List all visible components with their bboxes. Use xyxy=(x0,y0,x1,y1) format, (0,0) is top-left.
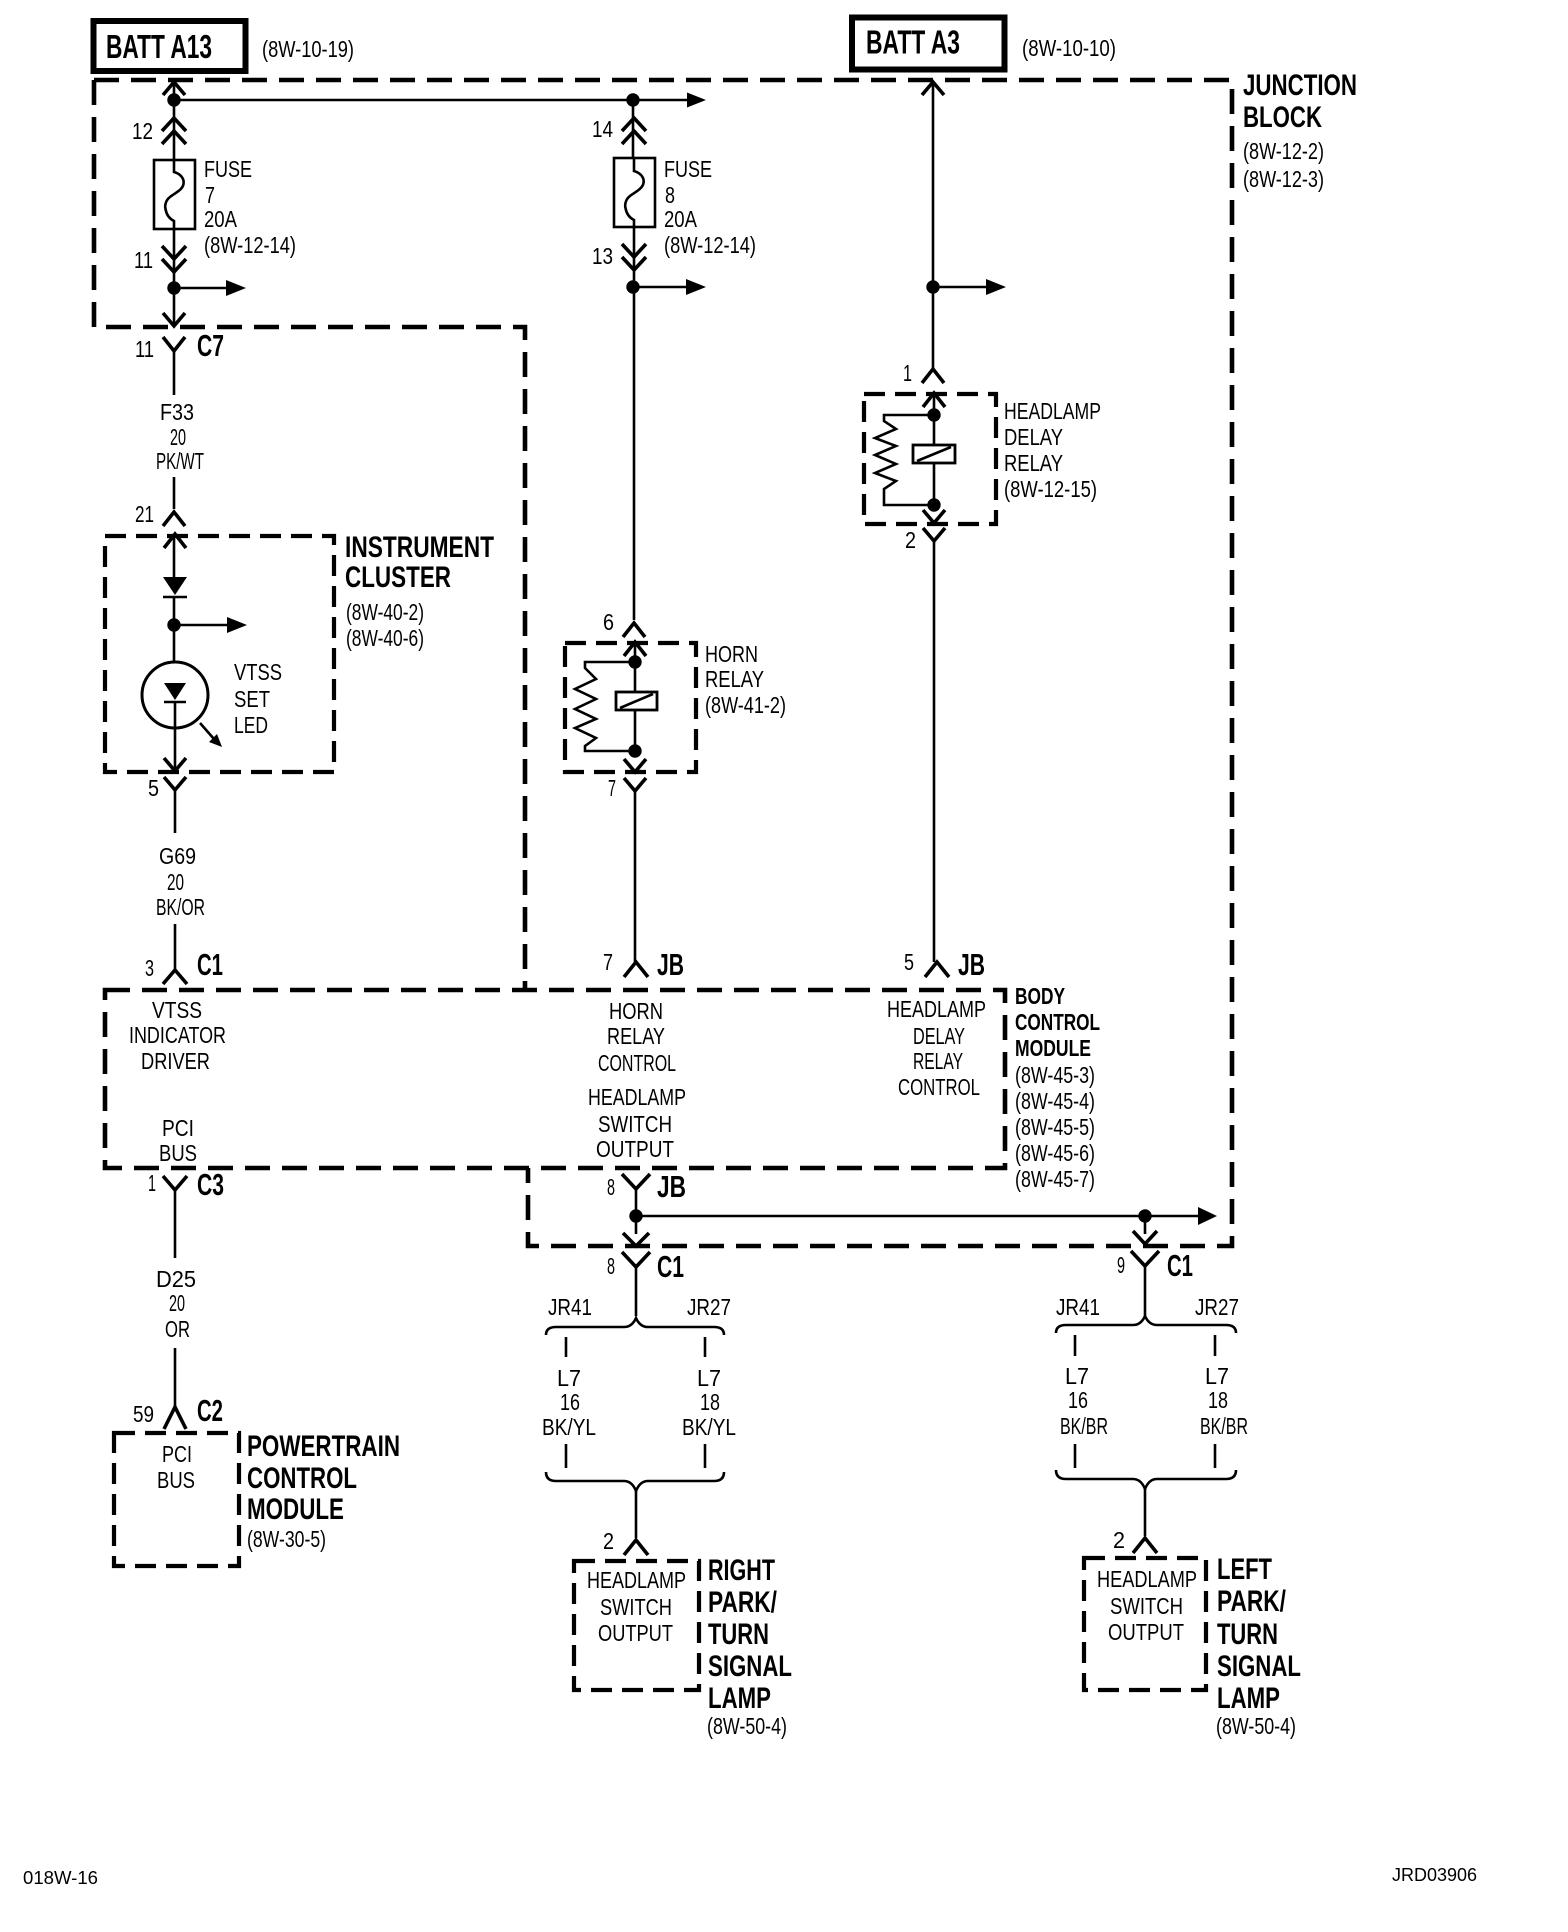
svg-text:HORN: HORN xyxy=(705,641,758,667)
svg-text:RELAY: RELAY xyxy=(913,1048,963,1074)
svg-text:16: 16 xyxy=(1068,1387,1088,1413)
svg-text:LAMP: LAMP xyxy=(1217,1682,1280,1715)
wire LED to pin 5 xyxy=(174,728,177,770)
svg-text:C3: C3 xyxy=(197,1167,224,1202)
delay relay coil element K2 xyxy=(913,445,955,463)
node delay relay bottom xyxy=(927,498,940,511)
svg-text:C1: C1 xyxy=(657,1249,684,1284)
svg-text:8: 8 xyxy=(607,1174,615,1200)
wire stub JR27 lower xyxy=(704,1444,707,1468)
svg-text:BODY: BODY xyxy=(1015,983,1065,1009)
wire diode to LED xyxy=(173,597,176,663)
svg-text:RELAY: RELAY xyxy=(705,666,764,692)
horn relay coil element K1 xyxy=(616,692,657,710)
wire F33 label xyxy=(156,399,204,474)
svg-text:VTSS: VTSS xyxy=(234,659,282,685)
splice brace split (right lamp) xyxy=(546,1318,724,1335)
diode D1 in cluster xyxy=(163,577,187,597)
svg-text:JR27: JR27 xyxy=(1195,1294,1239,1320)
svg-text:12: 12 xyxy=(132,118,153,144)
svg-text:BK/YL: BK/YL xyxy=(682,1414,736,1440)
wire horn relay internal vertical xyxy=(634,644,637,751)
svg-text:BUS: BUS xyxy=(159,1140,197,1166)
splice brace merge (left lamp) xyxy=(1056,1470,1236,1489)
connector half-arrow into junction block top (right) xyxy=(922,82,944,95)
connector 9 C1 xyxy=(1131,1248,1193,1316)
PCI BUS label in PCM xyxy=(157,1441,195,1493)
wire G69 to C1 xyxy=(174,924,177,970)
horn relay name label xyxy=(705,641,786,718)
svg-text:JUNCTION: JUNCTION xyxy=(1243,69,1357,102)
wire BATT A3 feed vertical xyxy=(932,84,935,370)
wire stub left JR41 upper xyxy=(1074,1335,1077,1356)
svg-text:(8W-30-5): (8W-30-5) xyxy=(247,1526,326,1552)
svg-text:OUTPUT: OUTPUT xyxy=(1108,1619,1184,1645)
svg-text:8: 8 xyxy=(607,1253,615,1279)
svg-text:G69: G69 xyxy=(159,843,196,869)
junction block inner step boundary xyxy=(94,80,525,988)
wire delay relay internal vertical xyxy=(933,395,936,505)
svg-text:CONTROL: CONTROL xyxy=(1015,1009,1100,1035)
node horn relay top xyxy=(628,655,641,668)
svg-text:OUTPUT: OUTPUT xyxy=(596,1136,674,1162)
connector half at cluster box edge xyxy=(164,534,186,548)
svg-text:BATT A13: BATT A13 xyxy=(106,28,212,65)
connector 7 JB at BCM top xyxy=(624,947,684,982)
svg-text:018W-16: 018W-16 xyxy=(23,1868,98,1888)
wire stub left JR27 lower xyxy=(1214,1444,1217,1468)
svg-text:9: 9 xyxy=(1117,1252,1125,1278)
body control module dashed box U-BCM xyxy=(105,990,1005,1168)
svg-text:7: 7 xyxy=(205,182,215,208)
svg-text:CONTROL: CONTROL xyxy=(598,1050,676,1076)
svg-text:PARK/: PARK/ xyxy=(708,1586,777,1619)
svg-text:3: 3 xyxy=(145,955,154,981)
svg-text:PK/WT: PK/WT xyxy=(156,448,204,474)
VTSS indicator driver label xyxy=(129,997,226,1074)
headlamp delay relay name label xyxy=(1004,398,1101,502)
VTSS SET LED lamp circle xyxy=(142,662,208,728)
horn relay dashed box K1 xyxy=(565,643,696,772)
svg-text:(8W-40-2): (8W-40-2) xyxy=(346,599,424,625)
horn relay coil resistor branch xyxy=(575,662,635,751)
svg-text:SET: SET xyxy=(234,686,270,712)
arrowhead top bus xyxy=(687,93,706,108)
svg-text:BK/BR: BK/BR xyxy=(1200,1413,1248,1439)
PCI BUS label in BCM xyxy=(159,1115,197,1166)
node at fuse7 top xyxy=(167,93,180,106)
svg-text:LAMP: LAMP xyxy=(708,1682,771,1715)
connector half pin 2 xyxy=(923,528,945,962)
svg-text:(8W-10-10): (8W-10-10) xyxy=(1022,35,1116,61)
horn relay control label in BCM xyxy=(598,998,676,1076)
wire stub JR41 lower xyxy=(565,1444,568,1468)
connector double chevron pin 13 xyxy=(622,244,646,270)
wire fuse8 feed xyxy=(632,100,635,160)
svg-text:SWITCH: SWITCH xyxy=(600,1594,672,1620)
svg-text:(8W-12-2): (8W-12-2) xyxy=(1243,138,1324,164)
wire fuse7 to C7 xyxy=(173,229,176,326)
svg-text:SIGNAL: SIGNAL xyxy=(708,1650,792,1683)
connector 8 C1 xyxy=(622,1249,684,1316)
connector half-arrow through junction block bottom (left lamp) xyxy=(1133,1231,1157,1244)
svg-text:L7: L7 xyxy=(1205,1363,1229,1389)
svg-text:JRD03906: JRD03906 xyxy=(1392,1865,1477,1885)
svg-text:MODULE: MODULE xyxy=(1015,1035,1091,1061)
arrowhead fuse8 branch xyxy=(686,279,706,295)
svg-text:DRIVER: DRIVER xyxy=(141,1048,210,1074)
connector half pin 2 right lamp xyxy=(624,1540,648,1555)
svg-text:(8W-12-14): (8W-12-14) xyxy=(664,232,756,258)
svg-text:20A: 20A xyxy=(204,206,238,232)
svg-text:SWITCH: SWITCH xyxy=(598,1111,672,1137)
svg-text:BATT A3: BATT A3 xyxy=(866,24,960,61)
wire merge to left lamp pin 2 xyxy=(1144,1489,1147,1536)
wire into cluster xyxy=(173,536,176,580)
connector half-arrow into junction block top (left) xyxy=(163,82,185,95)
wire fuse8 branch arrow stub xyxy=(633,286,688,289)
node cluster branch xyxy=(167,618,180,631)
svg-text:CONTROL: CONTROL xyxy=(898,1074,980,1100)
connector half at delay relay box top xyxy=(923,393,945,407)
svg-text:HEADLAMP: HEADLAMP xyxy=(587,1567,686,1593)
connector half pin 1 xyxy=(922,369,944,383)
LED diode triangle xyxy=(164,683,186,728)
wire L7 16 BK/BR label xyxy=(1060,1363,1108,1439)
headlamp switch output label in BCM xyxy=(588,1084,686,1162)
svg-text:JR27: JR27 xyxy=(687,1294,731,1320)
node fused B+ branch xyxy=(167,281,180,294)
svg-text:13: 13 xyxy=(592,243,613,269)
svg-text:CLUSTER: CLUSTER xyxy=(345,561,451,594)
connector 8 JB below BCM xyxy=(622,1169,686,1234)
junction block name label xyxy=(1243,69,1357,192)
headlamp delay relay dashed box K2 xyxy=(864,394,996,524)
battery feed box BATT A3 xyxy=(852,18,1005,70)
svg-text:(8W-45-6): (8W-45-6) xyxy=(1015,1140,1095,1166)
wire headlamp switch output bus horizontal xyxy=(636,1215,1199,1218)
wire F33 to instrument cluster xyxy=(173,477,176,509)
svg-text:(8W-45-4): (8W-45-4) xyxy=(1015,1088,1095,1114)
wire stub JR27 upper xyxy=(704,1337,707,1357)
svg-text:L7: L7 xyxy=(557,1365,581,1391)
svg-text:SIGNAL: SIGNAL xyxy=(1217,1650,1301,1683)
svg-text:8: 8 xyxy=(665,182,675,208)
svg-text:PCI: PCI xyxy=(162,1115,194,1141)
connector double chevron pin 14 xyxy=(622,118,646,144)
node headlamp switch output bus xyxy=(629,1209,642,1222)
svg-text:JB: JB xyxy=(657,1169,686,1204)
wire L7 16 BK/YL label xyxy=(542,1365,596,1440)
connector half-arrow through junction block bottom (mid) xyxy=(623,1233,649,1246)
fuse F8 body xyxy=(614,158,655,227)
svg-text:TURN: TURN xyxy=(1217,1618,1278,1651)
svg-text:PCI: PCI xyxy=(162,1441,192,1467)
svg-text:20: 20 xyxy=(167,869,184,895)
fuse F7 value label xyxy=(204,156,296,258)
svg-text:SWITCH: SWITCH xyxy=(1110,1593,1183,1619)
instrument cluster dashed box xyxy=(105,536,334,772)
wire BATT A3 branch arrow stub xyxy=(933,286,988,289)
svg-text:C7: C7 xyxy=(197,328,224,363)
svg-text:INSTRUMENT: INSTRUMENT xyxy=(345,531,494,564)
arrowhead cluster branch xyxy=(227,617,247,633)
svg-text:OUTPUT: OUTPUT xyxy=(598,1620,673,1646)
svg-text:5: 5 xyxy=(904,949,914,975)
svg-text:RELAY: RELAY xyxy=(607,1023,665,1049)
svg-text:POWERTRAIN: POWERTRAIN xyxy=(247,1430,400,1463)
right park/turn signal lamp name label xyxy=(707,1554,792,1739)
headlamp delay relay control label in BCM xyxy=(887,996,986,1100)
svg-text:RIGHT: RIGHT xyxy=(708,1554,775,1587)
VTSS SET LED label xyxy=(234,659,282,738)
svg-text:16: 16 xyxy=(560,1389,580,1415)
battery feed box BATT A13 xyxy=(94,21,246,71)
connector half-arrow out of junction block (C7 above) xyxy=(163,313,185,326)
right lamp headlamp switch output dashed box xyxy=(574,1561,699,1690)
svg-text:BK/YL: BK/YL xyxy=(542,1414,596,1440)
svg-text:(8W-40-6): (8W-40-6) xyxy=(346,625,424,651)
connector half pin 7 xyxy=(624,778,646,962)
connector 5 JB at BCM top xyxy=(925,947,985,982)
body control module name label xyxy=(1015,983,1100,1192)
svg-text:(8W-12-14): (8W-12-14) xyxy=(204,232,296,258)
arrowhead bus right xyxy=(1198,1207,1217,1225)
svg-text:JR41: JR41 xyxy=(548,1294,592,1320)
fuse F8 value label xyxy=(664,156,756,258)
node left lamp drop on bus xyxy=(1138,1209,1151,1222)
svg-text:(8W-50-4): (8W-50-4) xyxy=(707,1713,787,1739)
connector C3 xyxy=(163,1167,224,1258)
svg-text:(8W-10-19): (8W-10-19) xyxy=(262,36,354,62)
powertrain control module name label xyxy=(247,1430,400,1552)
instrument cluster name label xyxy=(345,531,494,651)
wire merge to lamp pin 2 xyxy=(635,1491,638,1538)
svg-text:HEADLAMP: HEADLAMP xyxy=(1097,1566,1197,1592)
svg-text:TURN: TURN xyxy=(708,1618,769,1651)
svg-text:(8W-41-2): (8W-41-2) xyxy=(705,692,786,718)
svg-text:JB: JB xyxy=(657,947,684,982)
connector C1 (BCM) xyxy=(163,947,223,984)
svg-text:CONTROL: CONTROL xyxy=(247,1462,357,1495)
left park/turn signal lamp name label xyxy=(1216,1553,1301,1739)
wire stub left JR27 upper xyxy=(1214,1335,1217,1356)
node at fuse8 drop xyxy=(626,93,639,106)
svg-text:DELAY: DELAY xyxy=(1004,424,1063,450)
svg-text:11: 11 xyxy=(134,247,153,273)
svg-text:59: 59 xyxy=(133,1401,154,1427)
connector half pin 5 xyxy=(164,777,186,833)
headlamp switch output label (right lamp) xyxy=(587,1567,686,1646)
fuse F7 body xyxy=(154,160,195,229)
node horn relay bottom xyxy=(628,744,641,757)
svg-text:HORN: HORN xyxy=(609,998,663,1024)
powertrain control module dashed box U-PCM xyxy=(114,1433,239,1566)
node delay relay top xyxy=(927,408,940,421)
svg-text:D25: D25 xyxy=(156,1266,196,1292)
wire L7 18 BK/YL label xyxy=(682,1365,736,1440)
svg-text:DELAY: DELAY xyxy=(913,1023,965,1049)
svg-text:PARK/: PARK/ xyxy=(1217,1585,1286,1618)
svg-text:1: 1 xyxy=(903,360,912,386)
wire top horizontal bus from A13 feed xyxy=(174,99,688,102)
svg-text:1: 1 xyxy=(148,1170,156,1196)
node BATT A3 branch xyxy=(926,280,939,293)
connector double chevron pin 11 xyxy=(162,246,186,272)
svg-text:MODULE: MODULE xyxy=(247,1493,344,1526)
wire stub left JR41 lower xyxy=(1074,1444,1077,1468)
svg-text:(8W-45-7): (8W-45-7) xyxy=(1015,1166,1095,1192)
LED emission arrow xyxy=(200,723,222,747)
connector double chevron pin 12 xyxy=(162,118,186,144)
svg-text:14: 14 xyxy=(592,116,613,142)
arrowhead BATT A3 branch xyxy=(986,279,1006,295)
svg-text:(8W-12-3): (8W-12-3) xyxy=(1243,166,1324,192)
node fuse8 branch xyxy=(626,280,639,293)
svg-text:6: 6 xyxy=(603,609,614,635)
connector C7 xyxy=(163,328,224,395)
svg-text:BUS: BUS xyxy=(157,1467,195,1493)
wire branch arrow stub xyxy=(174,287,228,290)
svg-text:L7: L7 xyxy=(697,1365,721,1391)
svg-text:JR41: JR41 xyxy=(1056,1294,1100,1320)
svg-text:20A: 20A xyxy=(664,206,698,232)
connector half-arrow at cluster bottom xyxy=(164,758,186,771)
svg-text:7: 7 xyxy=(608,775,616,801)
svg-text:L7: L7 xyxy=(1065,1363,1089,1389)
wire cluster branch arrow xyxy=(174,624,229,627)
svg-text:OR: OR xyxy=(165,1316,190,1342)
wire fuse8 output xyxy=(633,227,636,620)
svg-text:(8W-50-4): (8W-50-4) xyxy=(1216,1713,1296,1739)
svg-text:(8W-12-15): (8W-12-15) xyxy=(1004,476,1097,502)
wire BATT A13 feed vertical xyxy=(173,84,176,160)
svg-text:HEADLAMP: HEADLAMP xyxy=(1004,398,1101,424)
svg-text:7: 7 xyxy=(603,949,613,975)
svg-text:C1: C1 xyxy=(197,947,223,982)
svg-text:BLOCK: BLOCK xyxy=(1243,101,1322,134)
svg-text:18: 18 xyxy=(1208,1387,1228,1413)
wire stub JR41 upper xyxy=(565,1337,568,1357)
svg-text:HEADLAMP: HEADLAMP xyxy=(588,1084,686,1110)
junction block outer dashed boundary xyxy=(94,80,1232,1246)
svg-text:VTSS: VTSS xyxy=(152,997,202,1023)
wire G69 label xyxy=(156,843,205,920)
svg-text:5: 5 xyxy=(148,775,159,801)
svg-text:C1: C1 xyxy=(1167,1248,1193,1283)
wire D25 label xyxy=(156,1266,196,1342)
wire L7 18 BK/BR label xyxy=(1200,1363,1248,1439)
connector half pin 2 left lamp xyxy=(1133,1538,1157,1553)
svg-text:20: 20 xyxy=(170,424,186,450)
connector C2 xyxy=(164,1393,223,1429)
svg-text:LEFT: LEFT xyxy=(1217,1553,1272,1586)
svg-text:RELAY: RELAY xyxy=(1004,450,1063,476)
svg-text:INDICATOR: INDICATOR xyxy=(129,1022,226,1048)
connector half-arrow at horn relay box bottom xyxy=(624,759,646,772)
svg-text:21: 21 xyxy=(135,501,154,527)
delay relay coil resistor branch xyxy=(875,415,934,505)
svg-text:FUSE: FUSE xyxy=(664,156,712,182)
svg-text:BK/BR: BK/BR xyxy=(1060,1413,1108,1439)
connector half pin 6 xyxy=(623,623,645,637)
svg-text:2: 2 xyxy=(1113,1527,1125,1553)
svg-text:HEADLAMP: HEADLAMP xyxy=(887,996,986,1022)
svg-text:FUSE: FUSE xyxy=(204,156,252,182)
svg-text:(8W-45-3): (8W-45-3) xyxy=(1015,1062,1095,1088)
wire D25 to C2 xyxy=(174,1348,177,1406)
splice brace split (left lamp) xyxy=(1056,1316,1236,1333)
svg-text:C2: C2 xyxy=(197,1393,223,1428)
connector half pin 21 xyxy=(163,512,185,526)
svg-text:2: 2 xyxy=(603,1528,614,1554)
arrowhead branch stub xyxy=(226,280,246,296)
left lamp headlamp switch output dashed box xyxy=(1084,1558,1206,1690)
svg-text:20: 20 xyxy=(169,1290,185,1316)
connector half-arrow at delay relay box bottom xyxy=(923,510,945,523)
svg-text:2: 2 xyxy=(905,527,916,553)
splice brace merge (right lamp) xyxy=(546,1472,724,1491)
svg-text:(8W-45-5): (8W-45-5) xyxy=(1015,1114,1095,1140)
connector half at horn relay box top xyxy=(624,642,646,656)
wire left lamp drop xyxy=(1144,1216,1147,1234)
svg-text:F33: F33 xyxy=(160,399,194,425)
headlamp switch output label (left lamp) xyxy=(1097,1566,1197,1645)
svg-text:BK/OR: BK/OR xyxy=(156,894,205,920)
svg-text:11: 11 xyxy=(135,336,154,362)
svg-text:JB: JB xyxy=(958,947,985,982)
svg-text:LED: LED xyxy=(234,712,268,738)
svg-text:18: 18 xyxy=(700,1389,720,1415)
